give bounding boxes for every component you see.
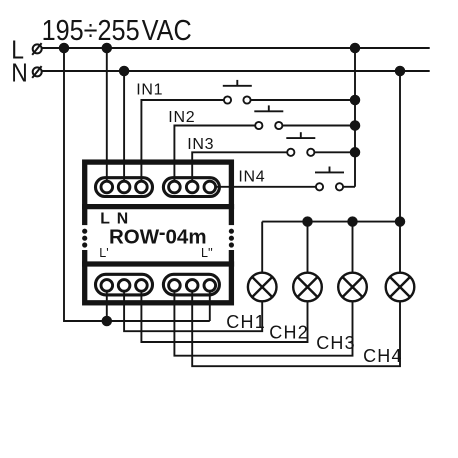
terminal pin L'': [204, 280, 216, 292]
svg-text:IN1: IN1: [136, 82, 163, 99]
module U1 right edge dots (middle section): [229, 229, 234, 248]
wire IN3 (terminal to button S3): [192, 152, 287, 187]
svg-text:L': L': [99, 246, 108, 260]
module U1 left edge dots (middle section): [82, 229, 87, 248]
wire L bus (right vertical from L line to buttons): [354, 48, 356, 187]
wire button S2 to L bus: [283, 125, 355, 127]
wire riser L'' terminal: [209, 285, 211, 321]
junction dot (L bus / S1): [351, 96, 360, 105]
junction dot (L bus / S2): [351, 121, 360, 130]
junction dot (L line / L feed): [60, 44, 69, 53]
wire N line (horizontal mains N): [42, 70, 430, 72]
wire lamp bus (horizontal N distribution): [262, 221, 400, 223]
lamp E4 (CH4): [386, 273, 415, 302]
wire L riser into module terminal L: [106, 48, 108, 187]
wire IN4 (terminal to button S4): [210, 186, 316, 188]
push-button S2 (IN2): [254, 105, 283, 129]
svg-text:N: N: [11, 59, 28, 88]
wire lamp E3 top: [352, 222, 354, 273]
terminal block top-left (L,N,IN1): [96, 178, 153, 197]
junction dot (L bus / S3): [351, 148, 360, 157]
svg-text:IN4: IN4: [238, 168, 265, 185]
lamp E2 (CH2): [293, 273, 322, 302]
terminal pin CH4: [186, 280, 198, 292]
terminal pin N: [118, 181, 130, 193]
terminal pin IN2: [169, 181, 181, 193]
svg-text:L'': L'': [201, 246, 213, 260]
terminal block bottom-left (L',CH1,CH2): [96, 274, 153, 295]
terminal pin CH2: [136, 280, 148, 292]
junction dot (lamp bus / N dropper): [396, 217, 405, 226]
svg-text:IN2: IN2: [168, 109, 195, 126]
terminal pin IN4: [204, 181, 216, 193]
terminal symbol N (circle with slash): [32, 66, 42, 78]
junction dot (L line / L bus): [351, 44, 360, 53]
terminal block top-right (IN2,IN3,IN4): [163, 178, 219, 197]
wire CH4 output (terminal 4 to lamp E4): [192, 285, 400, 366]
push-button S1 (IN1): [223, 80, 252, 104]
wire lamp E1 top: [261, 222, 263, 273]
wire N riser into module terminal N: [123, 71, 125, 187]
svg-text:ROW-04m: ROW-04m: [109, 221, 207, 249]
terminal pin CH3: [169, 280, 181, 292]
svg-text:195÷255 VAC: 195÷255 VAC: [42, 13, 192, 46]
junction dot (L feed / L' riser): [103, 317, 112, 326]
junction dot (lamp bus / E3): [348, 217, 357, 226]
junction dot (lamp bus / E2): [303, 217, 312, 226]
junction dot (N line / N dropper): [396, 67, 405, 76]
junction dot (L line / L riser): [103, 44, 112, 53]
module U1 internal divider (above output terminals): [82, 261, 234, 266]
lamp E3 (CH3): [338, 273, 367, 302]
wire IN1 (terminal to button S1): [141, 100, 224, 187]
wire lamp E2 top: [307, 222, 309, 273]
wire L feed to L'/L'' (left vertical drop): [64, 48, 210, 321]
svg-text:IN3: IN3: [187, 136, 214, 153]
terminal symbol L (circle with slash): [32, 43, 42, 55]
svg-text:CH1: CH1: [226, 312, 266, 332]
svg-text:CH3: CH3: [316, 333, 356, 353]
terminal pin L': [101, 280, 113, 292]
svg-text:CH2: CH2: [269, 323, 309, 343]
push-button S3 (IN3): [286, 132, 315, 156]
wire N dropper (right vertical from N line to lamps): [399, 71, 401, 273]
wire L line (horizontal mains L): [42, 47, 430, 49]
module U1 ROW-04m outline: [80, 162, 236, 303]
terminal pin IN3: [186, 181, 198, 193]
module U1 internal divider (below input terminals): [82, 204, 234, 209]
terminal pin CH1: [118, 280, 130, 292]
junction dot (N line / N riser): [120, 67, 129, 76]
wire CH3 output (terminal 3 to lamp E3): [174, 285, 352, 355]
terminal pin IN1: [136, 181, 148, 193]
wire CH2 output (terminal 2 to lamp E2): [141, 285, 307, 342]
terminal pin L: [101, 181, 113, 193]
svg-text:CH4: CH4: [363, 346, 403, 366]
wire button S4 to L bus: [343, 186, 355, 188]
wire button S3 to L bus: [315, 151, 355, 153]
push-button S4 (IN4): [315, 167, 344, 191]
wire button S1 to L bus: [251, 99, 355, 101]
wire riser L' terminal: [106, 285, 108, 321]
terminal block bottom-right (CH3,CH4,L''): [163, 274, 219, 295]
wire CH1 output (terminal 1 to lamp E1): [124, 285, 262, 331]
lamp E1 (CH1): [248, 273, 277, 302]
wire IN2 (terminal to button S2): [174, 126, 255, 188]
